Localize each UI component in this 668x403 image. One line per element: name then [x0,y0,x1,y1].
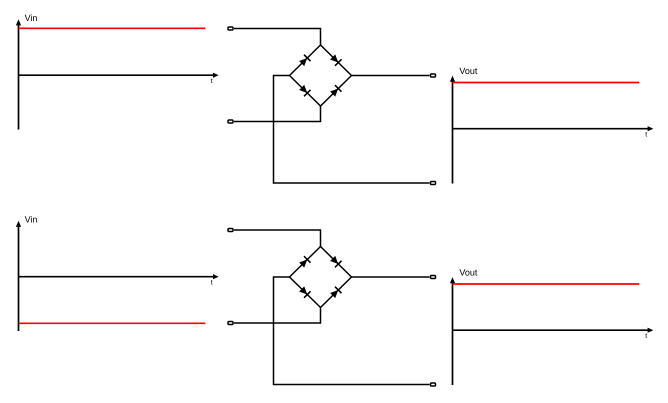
bridge 2: diode D6 (top node to right node) [321,247,352,278]
Vin graph 1: horizontal t axis [19,73,219,78]
bridge 2: diode D8 (bottom node to right node) [321,277,352,308]
Vin graph 1: vertical axis [16,19,21,129]
svg-text:t: t [645,131,647,138]
Vin graph 1: waveform, positive DC level (red) [19,27,206,29]
bridge 2: diode D7 (left node to bottom node) [290,277,321,308]
Vout graph 2: horizontal t axis [453,328,654,333]
svg-text:Vin: Vin [25,13,38,23]
bridge 2: wire T5 to top node [234,230,321,247]
bridge 2: wire T6 to bottom node [234,308,321,324]
svg-text:t: t [211,78,213,85]
bridge 1: wire left node to T4 [274,76,430,184]
bridge 1: wire T1 to top node [234,29,321,46]
bridge 1: diode D4 (bottom node to right node) [321,76,352,107]
bridge 2: terminal T5 (AC input top) [228,229,233,232]
svg-text:t: t [211,279,213,286]
Vin graph 2: vertical axis [16,221,21,331]
bridge 2: wire left node to T8 [274,277,430,385]
svg-text:t: t [645,333,647,340]
bridge 1: diode D3 (left node to bottom node) [290,76,321,107]
bridge 2: terminal T7 (DC output +) [431,276,436,279]
bridge 1: terminal T4 (DC output -) [431,182,436,185]
Vin graph 2: horizontal t axis [19,274,219,279]
svg-text:Vin: Vin [25,215,38,225]
bridge 1: terminal T1 (AC input top) [228,27,233,30]
bridge 1: diode D1 (left node to top node) [290,45,321,76]
Vout graph 1: vertical axis [450,76,455,184]
Vout graph 2: vertical axis [450,277,455,385]
bridge 2: terminal T8 (DC output -) [431,383,436,386]
bridge 2: terminal T6 (AC input bottom) [228,322,233,325]
Vout graph 1: horizontal t axis [453,126,654,131]
Vout graph 1: waveform, positive DC level (red) [453,82,640,84]
bridge 1: wire T2 to bottom node [234,106,321,122]
bridge 2: wire right node to T7 [352,276,430,278]
svg-text:Vout: Vout [459,268,478,278]
bridge 1: terminal T3 (DC output +) [431,74,436,77]
Vout graph 2: waveform, positive DC level (red) [453,283,640,285]
bridge 1: diode D2 (top node to right node) [321,45,352,76]
svg-text:Vout: Vout [459,66,478,76]
bridge 1: wire right node to T3 [352,75,430,77]
bridge 2: diode D5 (left node to top node) [290,247,321,278]
Vin graph 2: waveform, negative DC level (red) [19,322,206,324]
bridge 1: terminal T2 (AC input bottom) [228,120,233,123]
